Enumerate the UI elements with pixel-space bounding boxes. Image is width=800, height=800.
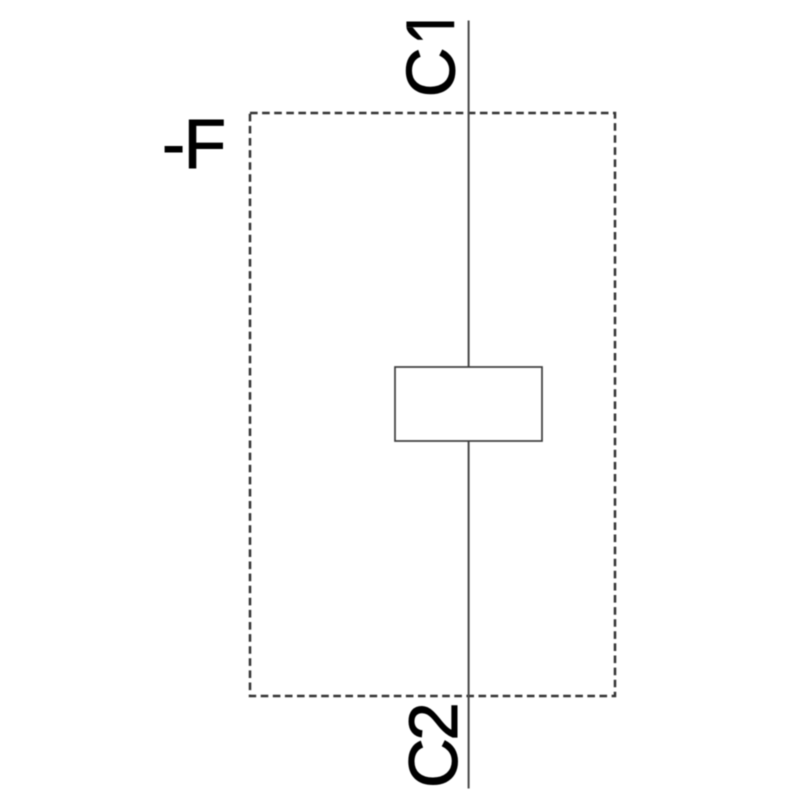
surge suppressor block -F: dashed outline — [250, 113, 615, 696]
terminal label C1 (rotated): digit 1 custom glyph — [406, 22, 454, 28]
svg-text:C: C — [392, 47, 469, 97]
wire: vertical lead from terminal C1 to terminal C2 — [468, 21, 470, 789]
svg-text:C2: C2 — [395, 705, 472, 788]
svg-text:-F: -F — [162, 105, 225, 183]
suppressor component body (rectangle) — [395, 367, 542, 441]
